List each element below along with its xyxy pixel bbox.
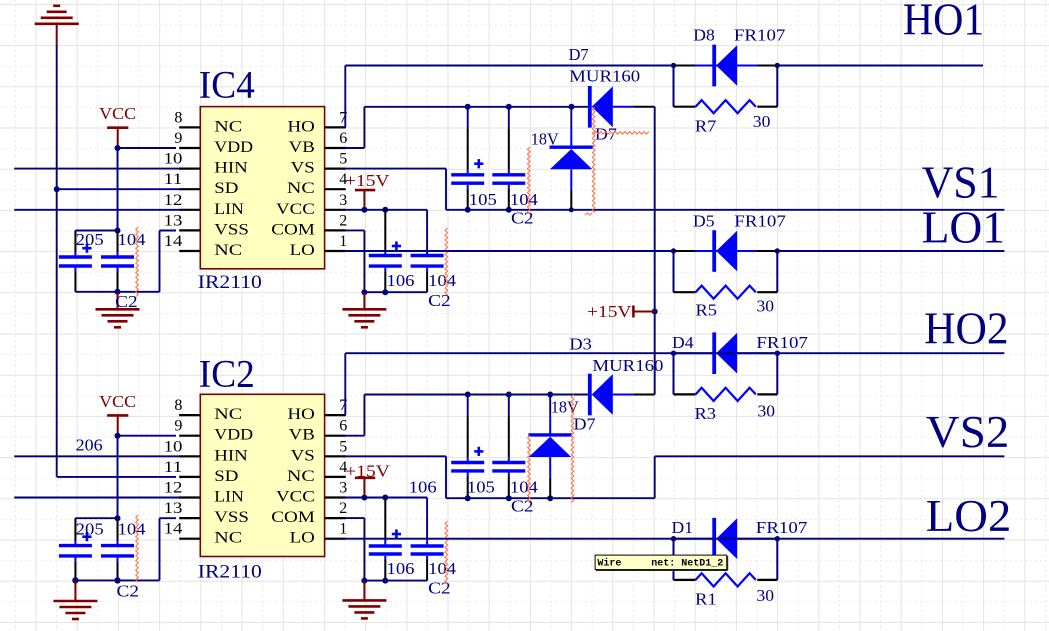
svg-text:HIN: HIN: [214, 447, 248, 464]
svg-text:NC: NC: [214, 242, 242, 259]
svg-text:12: 12: [164, 192, 183, 209]
svg-text:30: 30: [757, 297, 775, 316]
svg-text:LIN: LIN: [214, 489, 244, 506]
svg-text:VB: VB: [289, 427, 315, 444]
svg-text:SD: SD: [214, 468, 238, 485]
svg-text:205: 205: [76, 519, 104, 538]
svg-text:30: 30: [753, 112, 771, 131]
svg-text:D7: D7: [569, 45, 589, 64]
svg-text:+15V: +15V: [345, 171, 390, 190]
svg-text:VCC: VCC: [276, 201, 315, 218]
svg-text:VSS: VSS: [214, 221, 249, 238]
svg-text:VDD: VDD: [214, 139, 253, 156]
svg-text:IC2: IC2: [199, 352, 255, 396]
svg-text:LIN: LIN: [214, 201, 244, 218]
svg-text:R3: R3: [695, 404, 717, 423]
svg-text:106: 106: [387, 271, 415, 290]
svg-text:FR107: FR107: [756, 333, 808, 352]
svg-text:13: 13: [164, 212, 183, 229]
svg-text:MUR160: MUR160: [569, 67, 640, 86]
svg-text:D7: D7: [574, 415, 597, 434]
svg-text:104: 104: [510, 190, 539, 209]
svg-text:106: 106: [387, 559, 415, 578]
svg-text:D4: D4: [672, 333, 694, 352]
svg-text:FR107: FR107: [756, 518, 808, 537]
svg-text:D8: D8: [693, 26, 715, 45]
svg-text:VS1: VS1: [922, 158, 1000, 208]
svg-text:206: 206: [76, 436, 103, 455]
svg-text:VDD: VDD: [214, 427, 253, 444]
svg-text:C2: C2: [428, 291, 451, 310]
svg-text:14: 14: [164, 233, 183, 250]
svg-text:9: 9: [174, 418, 182, 435]
svg-text:MUR160: MUR160: [592, 356, 663, 375]
svg-text:VCC: VCC: [99, 104, 136, 123]
svg-text:18V: 18V: [531, 130, 560, 149]
svg-text:104: 104: [428, 559, 457, 578]
svg-text:COM: COM: [271, 509, 315, 526]
svg-text:VCC: VCC: [276, 489, 315, 506]
svg-text:LO: LO: [290, 242, 315, 259]
svg-text:D1: D1: [672, 518, 694, 537]
svg-text:HO: HO: [288, 406, 315, 423]
svg-text:FR107: FR107: [734, 212, 786, 231]
svg-text:LO1: LO1: [922, 203, 1006, 253]
svg-text:LO: LO: [290, 530, 315, 547]
svg-text:13: 13: [164, 500, 183, 517]
svg-text:9: 9: [174, 130, 182, 147]
svg-text:COM: COM: [271, 221, 315, 238]
svg-text:NC: NC: [214, 406, 242, 423]
svg-text:C2: C2: [511, 209, 534, 228]
svg-text:HO: HO: [288, 118, 315, 135]
svg-text:105: 105: [469, 190, 497, 209]
svg-text:5: 5: [339, 438, 347, 455]
svg-text:104: 104: [510, 478, 539, 497]
svg-text:IR2110: IR2110: [198, 272, 262, 293]
svg-text:VS: VS: [291, 160, 315, 177]
svg-text:14: 14: [164, 521, 183, 538]
svg-text:IC4: IC4: [199, 63, 255, 107]
svg-text:Wire: Wire: [597, 558, 621, 570]
svg-text:104: 104: [118, 519, 147, 538]
svg-text:R5: R5: [696, 300, 718, 319]
svg-text:IR2110: IR2110: [198, 562, 262, 583]
svg-text:11: 11: [164, 459, 183, 476]
svg-text:net: NetD1_2: net: NetD1_2: [651, 559, 723, 570]
svg-text:LO2: LO2: [926, 491, 1012, 541]
svg-text:205: 205: [76, 230, 104, 249]
svg-text:+15V: +15V: [587, 302, 632, 321]
svg-text:NC: NC: [214, 530, 242, 547]
svg-text:R1: R1: [695, 590, 717, 609]
svg-text:104: 104: [428, 271, 457, 290]
svg-text:1: 1: [339, 521, 347, 538]
svg-text:C2: C2: [117, 581, 140, 600]
svg-text:NC: NC: [214, 118, 242, 135]
svg-text:VSS: VSS: [214, 509, 249, 526]
svg-text:30: 30: [758, 401, 776, 420]
svg-text:104: 104: [118, 230, 147, 249]
svg-text:1: 1: [339, 233, 347, 250]
svg-text:VS2: VS2: [926, 407, 1010, 457]
svg-text:SD: SD: [214, 180, 238, 197]
svg-text:6: 6: [339, 418, 347, 435]
svg-text:D3: D3: [569, 334, 592, 353]
svg-text:5: 5: [339, 151, 347, 168]
svg-text:VS: VS: [291, 447, 315, 464]
svg-text:C2: C2: [428, 579, 451, 598]
svg-text:10: 10: [164, 151, 183, 168]
svg-text:C2: C2: [511, 496, 534, 515]
svg-text:D5: D5: [693, 212, 715, 231]
svg-text:30: 30: [757, 586, 775, 605]
svg-text:NC: NC: [287, 468, 315, 485]
svg-text:10: 10: [164, 438, 183, 455]
svg-text:8: 8: [174, 397, 182, 414]
svg-text:HO2: HO2: [924, 304, 1009, 354]
svg-text:HO1: HO1: [903, 0, 985, 45]
svg-text:11: 11: [164, 171, 183, 188]
svg-text:2: 2: [339, 212, 347, 229]
svg-text:HIN: HIN: [214, 160, 248, 177]
svg-text:8: 8: [174, 109, 182, 126]
svg-text:FR107: FR107: [734, 26, 786, 45]
svg-text:NC: NC: [287, 180, 315, 197]
svg-text:3: 3: [339, 480, 347, 497]
svg-text:105: 105: [467, 478, 495, 497]
svg-text:106: 106: [409, 478, 437, 497]
svg-text:VCC: VCC: [99, 392, 136, 411]
svg-text:2: 2: [339, 500, 347, 517]
svg-text:C2: C2: [115, 292, 138, 311]
svg-text:R7: R7: [695, 117, 717, 136]
svg-text:6: 6: [339, 130, 347, 147]
svg-text:12: 12: [164, 480, 183, 497]
svg-text:VB: VB: [289, 139, 315, 156]
svg-text:3: 3: [339, 192, 347, 209]
